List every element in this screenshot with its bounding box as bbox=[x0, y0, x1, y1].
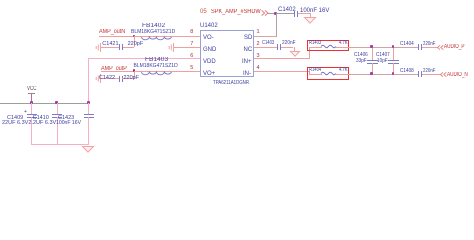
capacitor C1421 bbox=[101, 47, 120, 48]
wire pin7 GND row bbox=[174, 47, 201, 48]
pin number 8 bbox=[190, 30, 193, 36]
pin number 5 bbox=[190, 66, 193, 72]
wire VCC bus bbox=[0, 103, 89, 104]
wire C1403 to ground bbox=[294, 47, 295, 52]
wire R1404 to C1408 bbox=[349, 74, 419, 75]
wire SPK_AMP to C1402 bbox=[268, 13, 294, 14]
junction FB1403/C1422 branch bbox=[133, 69, 136, 72]
pin number 7 bbox=[190, 42, 193, 48]
power VCC bbox=[27, 86, 37, 92]
wire VDD pin6 row bbox=[88, 58, 200, 59]
pin number 4 bbox=[257, 66, 260, 72]
pin number 1 bbox=[257, 30, 260, 36]
wire C1421 branch vertical bbox=[134, 36, 135, 48]
wire R1403 to C1404 bbox=[349, 47, 419, 48]
pin number 6 bbox=[190, 54, 193, 60]
off-page connector chevrons bbox=[261, 10, 269, 16]
net label AUDIO_P bbox=[444, 44, 465, 50]
capacitor C1404 bbox=[400, 42, 414, 48]
junction bus C1410 bbox=[55, 101, 58, 104]
net label AMP_outP bbox=[101, 66, 127, 72]
ferrite bead FB1403 bbox=[145, 57, 168, 63]
capacitor C1423 bbox=[88, 103, 89, 114]
resistor R1403 highlight box bbox=[307, 40, 349, 51]
capacitor C1407 bbox=[376, 53, 390, 59]
capacitor C1410 bbox=[57, 103, 58, 114]
capacitor C1403 bbox=[262, 41, 274, 47]
net label AUDIO_N bbox=[447, 72, 468, 78]
wire AMP_outP row bbox=[101, 71, 200, 72]
wire AMP_outN row bbox=[99, 36, 200, 37]
wire pin4 jog to R1404 bbox=[309, 71, 310, 75]
wire pin1 stub bbox=[254, 36, 276, 37]
net label AMP_outN bbox=[99, 29, 125, 35]
wire bottom rail bbox=[31, 144, 89, 145]
net label SPK_AMP_#SHDW bbox=[211, 9, 261, 15]
off-page connector AUDIO_N bbox=[440, 72, 447, 77]
pin number 2 bbox=[257, 42, 260, 48]
capacitor C1406 bbox=[354, 53, 368, 59]
junction C1407 top bbox=[392, 45, 395, 48]
wire pin2 stub bbox=[254, 47, 277, 48]
wire pin4 stub bbox=[254, 71, 309, 72]
wire riser to pin1 bbox=[276, 13, 277, 37]
ferrite bead FB1402 bbox=[142, 23, 165, 29]
chassis ground C1421 bbox=[95, 43, 101, 52]
junction C1406 bottom bbox=[370, 72, 373, 75]
junction bus C1409 bbox=[30, 101, 33, 104]
capacitor C1409 bbox=[31, 103, 32, 114]
resistor R1404 highlight box bbox=[307, 67, 349, 81]
chassis ground pin7 bbox=[168, 43, 174, 52]
capacitor C1408 bbox=[400, 69, 414, 75]
junction bus riser bbox=[87, 101, 90, 104]
off-page connector AUDIO_P bbox=[437, 45, 444, 50]
capacitor C1402 bbox=[278, 7, 296, 13]
wire VDD riser bbox=[88, 58, 89, 103]
junction C1407 bottom bbox=[392, 72, 395, 75]
resistor R1403 bbox=[309, 41, 321, 46]
chassis ground C1422 bbox=[95, 74, 101, 83]
wire pin3 riser to R1403 bbox=[309, 47, 310, 59]
ground at C1402 bbox=[310, 13, 311, 18]
wire C1402 to ground bbox=[298, 13, 310, 14]
pin number 3 bbox=[257, 54, 260, 60]
wire pin3 stub bbox=[254, 58, 309, 59]
wire C1422 branch vertical bbox=[134, 71, 135, 79]
junction at riser bbox=[274, 12, 277, 15]
junction C1406 top bbox=[370, 45, 373, 48]
net label 05 sheet ref bbox=[200, 9, 207, 15]
ground bottom bbox=[82, 146, 94, 153]
junction FB1402/C1421 branch bbox=[133, 35, 136, 38]
resistor R1404 bbox=[309, 68, 321, 73]
op-amp U1402 bbox=[200, 23, 218, 29]
capacitor C1422 bbox=[101, 78, 119, 79]
ground at C1403 bbox=[290, 51, 300, 57]
